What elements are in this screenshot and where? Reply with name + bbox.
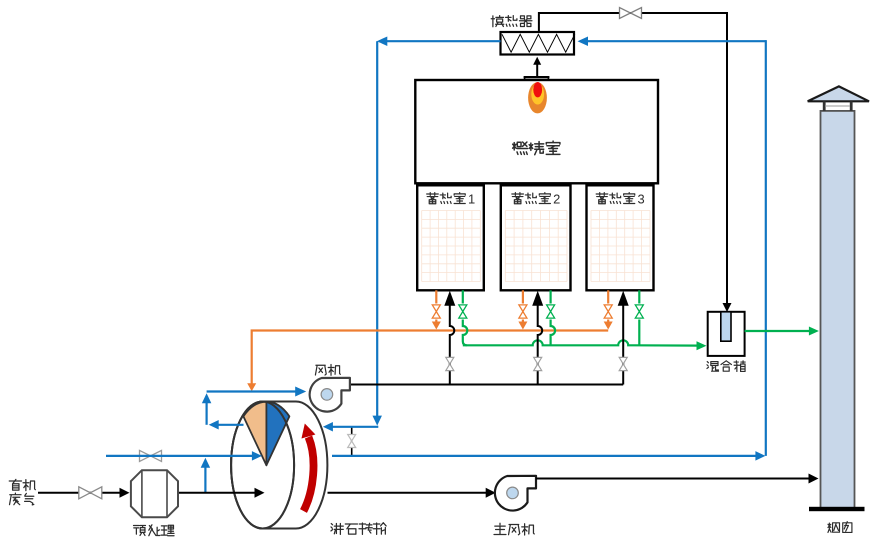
svg-text:3: 3 xyxy=(638,191,645,206)
svg-text:1: 1 xyxy=(468,191,475,206)
svg-text:2: 2 xyxy=(553,191,560,206)
